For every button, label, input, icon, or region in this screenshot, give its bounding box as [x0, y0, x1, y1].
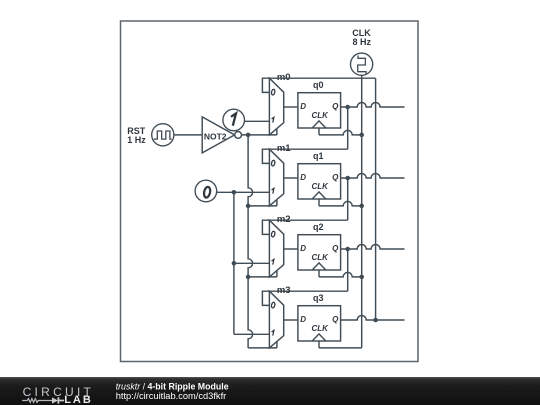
flip-flop q2 body: [298, 235, 341, 270]
junction select m2: [246, 275, 251, 280]
svg-text:CLK: CLK: [311, 111, 329, 120]
wire probe-0 to mux m1 input 1: [217, 191, 270, 193]
svg-text:m3: m3: [277, 285, 291, 296]
flip-flop q3 body: [298, 306, 341, 341]
mux m3 input-0 loop wire: [262, 291, 269, 305]
clock source CLK (square wave): [351, 53, 373, 75]
wire select m1: [248, 205, 277, 207]
mux m2 label 1: [272, 259, 274, 264]
mux m3 select stub: [276, 342, 278, 348]
wire net m0 horizontal: [269, 77, 375, 79]
mux m3 body: [269, 291, 283, 348]
flip-flop q1 clock edge triangle: [312, 192, 326, 199]
wire probe-1 to mux m0 input 1: [244, 120, 269, 122]
junction probe-0 branch: [232, 190, 237, 195]
probe value 0 circle: [195, 180, 217, 202]
wire to mux m2 input 1: [234, 262, 270, 264]
mux m1 input-0 loop wire: [262, 149, 269, 163]
junction q0 CLK on clock rail: [359, 133, 364, 138]
svg-text:D: D: [300, 315, 306, 324]
mux m3 label 1: [272, 330, 274, 335]
wire NOT2 output to mux selects (row 0): [242, 134, 277, 136]
wire to mux m3 input 1: [234, 333, 270, 335]
voltage source RST (square wave): [152, 124, 174, 146]
wire 0-branch rail (vertical): [233, 192, 235, 334]
junction Q3 to net m0 rail: [373, 318, 378, 323]
svg-text:Q: Q: [332, 173, 339, 182]
svg-text:m2: m2: [277, 214, 291, 225]
svg-text:D: D: [300, 244, 306, 253]
svg-text:Q: Q: [332, 244, 339, 253]
mux m2 body: [269, 220, 283, 277]
svg-text:1 Hz: 1 Hz: [127, 135, 146, 145]
flip-flop q0 clock stub: [318, 128, 320, 135]
svg-text:Q: Q: [332, 315, 339, 324]
logo diode symbol: [52, 397, 58, 403]
logo diode bar and lead: [58, 397, 64, 404]
junction select m1: [246, 204, 251, 209]
mux m0 label 1: [272, 117, 274, 122]
mux m1 label 1: [272, 188, 274, 193]
svg-text:q3: q3: [313, 293, 324, 303]
svg-text:Q: Q: [332, 102, 339, 111]
mux m3 label 0: [271, 302, 275, 308]
CLK square-wave glyph: [358, 56, 366, 75]
wire q2 CLK to clock rail: [319, 272, 362, 277]
wire q0 CLK to clock rail: [319, 130, 362, 135]
wire select m3: [248, 347, 277, 349]
wire Q2 output: [341, 245, 405, 250]
mux m2 select stub: [276, 271, 278, 277]
junction q2 CLK on clock rail: [359, 275, 364, 280]
mux m0 select stub: [276, 129, 278, 135]
flip-flop q2 clock stub: [318, 270, 320, 277]
wire q3 CLK to clock rail: [319, 347, 362, 349]
svg-text:NOT2: NOT2: [204, 131, 227, 141]
mux m0 label 0: [271, 89, 275, 95]
RST square-wave glyph: [154, 131, 172, 139]
wire select rail (vertical): [248, 135, 253, 348]
svg-text:LAB: LAB: [64, 394, 93, 405]
wire CLK rail (vertical): [361, 75, 363, 348]
wire mux m3 output to D: [284, 319, 298, 321]
wire mux m1 output to D: [284, 177, 298, 179]
inverter NOT2 output bubble: [235, 132, 242, 139]
mux m0 input-0 loop wire: [262, 78, 269, 92]
svg-text:D: D: [300, 102, 306, 111]
junction NOT2 output: [246, 133, 251, 138]
svg-text:q1: q1: [313, 151, 324, 161]
svg-text:http://circuitlab.com/cd3fkfr: http://circuitlab.com/cd3fkfr: [116, 391, 227, 401]
probe value 0 digit: [203, 186, 211, 198]
svg-text:m1: m1: [277, 143, 291, 154]
wire Q1 output: [341, 174, 405, 179]
svg-text:CLK: CLK: [311, 253, 329, 262]
junction Q1 feedback: [345, 176, 350, 181]
wire Q1 to net m2 (vertical): [347, 178, 349, 220]
wire Q0 to net m1 (vertical): [347, 107, 349, 149]
svg-text:trusktr / 4-bit Ripple Module: trusktr / 4-bit Ripple Module: [116, 381, 229, 391]
svg-text:CLK: CLK: [311, 324, 329, 333]
svg-text:q2: q2: [313, 222, 324, 232]
wire Q0 output: [341, 103, 405, 108]
mux m1 select stub: [276, 200, 278, 206]
svg-text:D: D: [300, 173, 306, 182]
junction q1 CLK on clock rail: [359, 204, 364, 209]
mux m2 input-0 loop wire: [262, 220, 269, 234]
footer bar: [0, 377, 540, 405]
wire Q2 to net m3 (vertical): [347, 249, 349, 291]
wire net m0 feedback rail (vertical): [375, 78, 377, 320]
flip-flop q3 clock stub: [318, 341, 320, 348]
flip-flop q2 clock edge triangle: [312, 263, 326, 270]
junction Q2 feedback: [345, 247, 350, 252]
wire mux m0 output to D: [284, 106, 298, 108]
probe value 1 circle: [223, 109, 245, 131]
flip-flop q3 clock edge triangle: [312, 334, 326, 341]
junction Q0 feedback: [345, 105, 350, 110]
svg-text:m0: m0: [277, 72, 291, 83]
svg-text:q0: q0: [313, 80, 324, 90]
inverter NOT2 triangle: [202, 117, 234, 153]
flip-flop q1 body: [298, 164, 341, 199]
mux m0 body: [269, 78, 283, 135]
svg-text:CLK: CLK: [311, 182, 329, 191]
svg-text:8 Hz: 8 Hz: [353, 37, 372, 47]
wire RST to NOT2 input: [174, 134, 202, 136]
schematic frame: [121, 21, 419, 362]
flip-flop q1 clock stub: [318, 199, 320, 206]
wire net m1 horizontal: [269, 148, 347, 150]
junction m2 input branch: [232, 261, 237, 266]
mux m1 label 0: [271, 160, 275, 166]
flip-flop q0 clock edge triangle: [312, 121, 326, 128]
wire net m3 horizontal: [269, 290, 347, 292]
wire Q3 output: [341, 316, 405, 321]
wire q1 CLK to clock rail: [319, 201, 362, 206]
probe value 1 digit: [231, 113, 236, 125]
flip-flop q0 body: [298, 93, 341, 128]
wire mux m2 output to D: [284, 248, 298, 250]
mux m1 body: [269, 149, 283, 206]
mux m2 label 0: [271, 231, 275, 237]
logo waveform lead and resistor zigzag: [22, 399, 52, 403]
wire net m2 horizontal: [269, 219, 347, 221]
wire select m2: [248, 276, 277, 278]
